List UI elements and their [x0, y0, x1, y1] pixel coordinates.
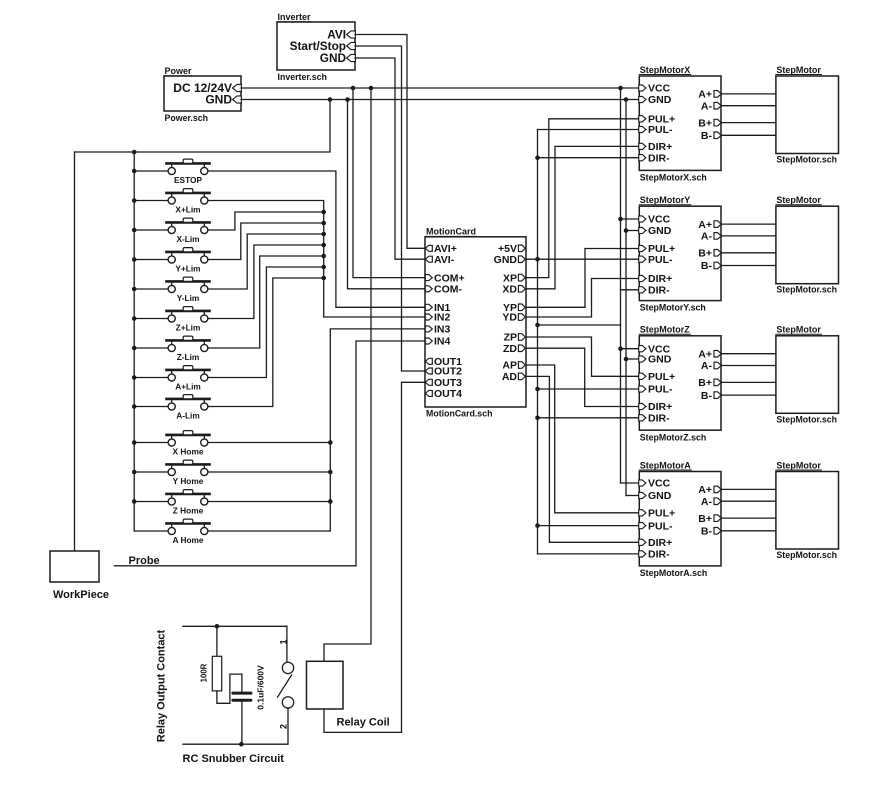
wire Y Home to home bus [208, 471, 330, 473]
pin IN1 of MotionCard [425, 304, 432, 310]
pin XP of MotionCard [518, 274, 525, 281]
wire Y+Lim to limit bus [208, 223, 324, 260]
svg-text:StepMotorY.sch: StepMotorY.sch [640, 303, 706, 313]
junction signal-ground at Z DIR- [535, 416, 540, 421]
wire X Home to home bus [208, 442, 330, 444]
pin COM+ of MotionCard [425, 275, 432, 281]
pin XD of MotionCard [518, 286, 525, 293]
junction signal-ground at A PUL- [535, 523, 540, 528]
junction snubber bottom [239, 742, 244, 747]
svg-text:ZD: ZD [503, 343, 517, 355]
sheet symbol StepMotor of axis A [776, 472, 839, 550]
wire VCC rail to StepMotorZ VCC [621, 348, 640, 350]
junction VCC rail at StepMotorZ [618, 346, 623, 351]
wire A+Lim to limit bus [208, 267, 324, 378]
pin DIR- of StepMotorZ [639, 415, 646, 421]
wire limit bus vertical to MotionCard IN2 [208, 201, 425, 318]
svg-text:XD: XD [502, 284, 517, 296]
svg-text:IN4: IN4 [434, 336, 451, 348]
pin DIR+ of StepMotorX [639, 143, 646, 149]
svg-text:PUL+: PUL+ [648, 371, 675, 383]
pin VCC of StepMotorA [639, 480, 646, 486]
pin A+ of StepMotorX [714, 91, 721, 98]
wire GND rail vertical [625, 100, 627, 496]
wire VCC rail to StepMotorA VCC [621, 482, 640, 484]
wire switch common bus vertical [133, 152, 135, 531]
wire relay contact top [183, 625, 287, 627]
svg-text:VCC: VCC [648, 83, 671, 95]
svg-text:MotionCard: MotionCard [426, 227, 476, 237]
junction +24V at COM+ branch [351, 86, 356, 91]
svg-text:X+Lim: X+Lim [175, 205, 200, 215]
wire relay contact bottom [183, 743, 287, 745]
pin A- of StepMotorZ [714, 362, 721, 369]
pin AVI+ of MotionCard [425, 245, 432, 251]
pin VCC of StepMotorZ [639, 346, 646, 352]
wire B+ StepMotorX to StepMotor [721, 122, 776, 124]
wire ZP to StepMotorZ PUL+ [526, 337, 639, 376]
svg-text:Relay Coil: Relay Coil [337, 717, 390, 729]
junction switch bus at Y Home [132, 470, 137, 475]
wire signal-ground tie to rail [538, 324, 621, 326]
contact terminal 2 [282, 697, 293, 708]
svg-text:X Home: X Home [173, 447, 204, 457]
wire A- StepMotorZ to StepMotor [721, 365, 776, 367]
wire signal-ground to StepMotorA PUL- [538, 525, 640, 527]
pin OUT1 of MotionCard [425, 358, 432, 364]
wire WorkPiece stem [74, 152, 76, 551]
pin IN4 of MotionCard [425, 338, 432, 344]
junction switch bus at A+Lim [132, 375, 137, 380]
switch A Home [134, 519, 209, 545]
wire home bus vertical to MotionCard IN3 [330, 329, 425, 531]
contact terminal 1 [282, 662, 293, 673]
sheet symbol StepMotorZ [639, 336, 721, 430]
svg-text:StepMotor: StepMotor [776, 460, 821, 470]
pin B- of StepMotorY [714, 262, 721, 269]
wire GND rail from Power GND to StepMotorX GND [241, 99, 639, 101]
wire YP to StepMotorY PUL+ [526, 249, 639, 308]
wire A+ StepMotorY to StepMotor [721, 223, 776, 225]
junction switch bus at A-Lim [132, 404, 137, 409]
svg-text:A-: A- [701, 496, 713, 508]
pin A- of StepMotorA [714, 498, 721, 505]
svg-text:StepMotorX: StepMotorX [640, 65, 691, 75]
svg-text:DIR+: DIR+ [648, 141, 672, 153]
pin GND of StepMotorA [639, 492, 646, 498]
svg-text:VCC: VCC [648, 214, 671, 226]
switch Y Home [134, 460, 209, 486]
pin GND of StepMotorY [639, 227, 646, 233]
svg-text:StepMotorA.sch: StepMotorA.sch [640, 568, 707, 578]
pin VCC of StepMotorX [639, 85, 646, 91]
svg-text:B+: B+ [698, 248, 712, 260]
svg-text:A+: A+ [698, 89, 712, 101]
wire contact terminal 2 lead [287, 708, 289, 744]
pin ZD of MotionCard [518, 345, 525, 352]
wire A- StepMotorA to StepMotor [721, 500, 776, 502]
pin DIR- of StepMotorX [639, 155, 646, 161]
wire +24V to Relay Coil [324, 88, 371, 661]
svg-text:PUL-: PUL- [648, 520, 673, 532]
pin AVI- of MotionCard [425, 256, 432, 262]
wire B- StepMotorA to StepMotor [721, 530, 776, 532]
svg-text:A-: A- [701, 360, 713, 372]
svg-text:100R: 100R [200, 663, 209, 682]
junction limit bus at Y+Lim branch [321, 221, 326, 226]
svg-text:A+: A+ [698, 348, 712, 360]
svg-text:DIR-: DIR- [648, 549, 670, 561]
junction switch bus top [132, 150, 137, 155]
wire A- StepMotorX to StepMotor [721, 105, 776, 107]
svg-text:Power: Power [165, 66, 193, 76]
wire signal-ground vertical [537, 130, 539, 554]
pin DC 12/24V of Power [233, 84, 242, 91]
svg-text:A+: A+ [698, 219, 712, 231]
pin ZP of MotionCard [518, 334, 525, 341]
svg-text:Z+Lim: Z+Lim [176, 323, 201, 333]
wire GND to switch common bus [75, 100, 331, 153]
switch A-Lim [134, 395, 209, 421]
sheet symbol StepMotor of axis Z [776, 336, 839, 414]
wire YD to StepMotorY DIR+ [526, 279, 639, 318]
svg-text:StepMotor: StepMotor [776, 195, 821, 205]
wire Z Home to home bus [208, 501, 330, 503]
pin YP of MotionCard [518, 304, 525, 311]
switch Y+Lim [134, 248, 209, 274]
sheet symbol StepMotor of axis X [776, 76, 839, 154]
svg-text:VCC: VCC [648, 478, 671, 490]
svg-text:OUT4: OUT4 [434, 388, 462, 400]
svg-text:B-: B- [701, 260, 713, 272]
wire signal-ground to StepMotorX DIR- [538, 157, 640, 159]
sheet symbol StepMotorY [639, 206, 721, 300]
wire B+ StepMotorY to StepMotor [721, 252, 776, 254]
wire X-Lim to limit bus [208, 212, 324, 230]
svg-text:StepMotor.sch: StepMotor.sch [776, 414, 837, 424]
sheet symbol StepMotorX [639, 76, 721, 170]
svg-text:StepMotorZ.sch: StepMotorZ.sch [640, 432, 706, 442]
pin VCC of StepMotorY [639, 216, 646, 222]
svg-text:Z Home: Z Home [173, 506, 204, 516]
junction switch bus at ESTOP [132, 169, 137, 174]
wire +24V to MotionCard COM+ [353, 88, 425, 278]
wire capacitor bottom lead [241, 702, 243, 745]
sheet symbol MotionCard [425, 237, 526, 407]
wire GND rail to StepMotorA GND [626, 495, 639, 497]
pin A- of StepMotorX [714, 102, 721, 109]
junction switch bus at Y-Lim [132, 287, 137, 292]
wire XP to StepMotorX PUL+ [526, 119, 639, 278]
pin B+ of StepMotorA [714, 515, 721, 522]
svg-text:AD: AD [502, 371, 518, 383]
svg-text:StepMotorY: StepMotorY [640, 195, 691, 205]
resistor 100R [212, 656, 221, 691]
pin OUT3 of MotionCard [425, 379, 432, 385]
svg-text:IN3: IN3 [434, 324, 451, 336]
svg-text:DIR-: DIR- [648, 285, 670, 297]
switch X-Lim [134, 218, 209, 244]
wire A+ StepMotorX to StepMotor [721, 93, 776, 95]
svg-text:DIR+: DIR+ [648, 537, 672, 549]
pin PUL+ of StepMotorA [639, 510, 646, 516]
svg-text:GND: GND [205, 93, 232, 107]
pin PUL- of StepMotorZ [639, 386, 646, 392]
svg-text:Y-Lim: Y-Lim [177, 293, 200, 303]
svg-text:B+: B+ [698, 377, 712, 389]
pin B+ of StepMotorY [714, 250, 721, 257]
wire B+ StepMotorA to StepMotor [721, 517, 776, 519]
junction switch bus at Z-Lim [132, 346, 137, 351]
svg-text:Relay Output Contact: Relay Output Contact [155, 629, 167, 742]
wire ESTOP to MotionCard IN1 [208, 171, 425, 307]
svg-text:OUT2: OUT2 [434, 366, 462, 378]
junction switch bus at Y+Lim [132, 257, 137, 262]
pin OUT4 of MotionCard [425, 390, 432, 396]
pin PUL+ of StepMotorY [639, 245, 646, 251]
wire resistor top lead [216, 626, 218, 656]
wire Z+Lim to limit bus [208, 245, 324, 319]
svg-text:StepMotorX.sch: StepMotorX.sch [640, 173, 707, 183]
svg-text:A+: A+ [698, 484, 712, 496]
junction +24V at relay branch [369, 86, 374, 91]
wire A Home to home bus [208, 530, 330, 532]
wire A+ StepMotorZ to StepMotor [721, 353, 776, 355]
block WorkPiece [50, 551, 99, 582]
block Relay Coil [307, 661, 344, 709]
pin GND of StepMotorZ [639, 356, 646, 362]
switch X+Lim [134, 189, 209, 215]
svg-text:StepMotor: StepMotor [776, 325, 821, 335]
svg-text:ESTOP: ESTOP [174, 175, 202, 185]
switch Y-Lim [134, 277, 209, 303]
svg-text:B-: B- [701, 130, 713, 142]
svg-text:GND: GND [648, 94, 672, 106]
pin GND of Inverter [347, 54, 356, 61]
svg-text:B-: B- [701, 390, 713, 402]
svg-text:B+: B+ [698, 117, 712, 129]
svg-text:RC Snubber Circuit: RC Snubber Circuit [183, 753, 285, 765]
junction signal-ground at rail tie [535, 323, 540, 328]
svg-text:ZP: ZP [504, 332, 517, 344]
junction switch bus at Z Home [132, 499, 137, 504]
svg-text:AVI-: AVI- [434, 254, 455, 266]
wire B- StepMotorX to StepMotor [721, 134, 776, 136]
svg-text:COM+: COM+ [434, 272, 465, 284]
wire VCC rail to StepMotorY VCC [621, 218, 640, 220]
junction GND rail at StepMotorY [624, 228, 629, 233]
svg-text:PUL-: PUL- [648, 384, 673, 396]
switch Z Home [134, 490, 209, 516]
switch Z+Lim [134, 307, 209, 333]
junction snubber top [215, 624, 220, 629]
svg-text:A-: A- [701, 100, 713, 112]
svg-text:StepMotor.sch: StepMotor.sch [776, 285, 837, 295]
wire Inverter Start/Stop to MotionCard OUT2 [355, 46, 425, 371]
wire MotionCard GND to StepMotorY PUL- [526, 258, 639, 260]
svg-text:GND: GND [320, 51, 347, 65]
pin YD of MotionCard [518, 314, 525, 321]
wire A-Lim to limit bus [208, 278, 324, 407]
pin DIR+ of StepMotorA [639, 539, 646, 545]
junction switch bus at X+Lim [132, 198, 137, 203]
pin DIR- of StepMotorY [639, 287, 646, 293]
svg-text:Inverter: Inverter [278, 12, 312, 22]
wire A+ StepMotorA to StepMotor [721, 488, 776, 490]
svg-text:A-Lim: A-Lim [176, 411, 200, 421]
pin B- of StepMotorZ [714, 392, 721, 399]
junction limit bus at A-Lim branch [321, 276, 326, 281]
wire signal-ground to StepMotorZ PUL- [538, 388, 640, 390]
svg-text:MotionCard.sch: MotionCard.sch [426, 409, 492, 419]
wire signal-ground to StepMotorX PUL- [538, 129, 640, 131]
pin PUL+ of StepMotorZ [639, 373, 646, 379]
wire resistor to capacitor [217, 674, 242, 703]
pin COM- of MotionCard [425, 286, 432, 292]
svg-text:PUL-: PUL- [648, 254, 673, 266]
contact lever [278, 675, 292, 697]
sheet symbol Power [164, 76, 241, 111]
svg-text:XP: XP [503, 272, 517, 284]
svg-text:0.1uF/600V: 0.1uF/600V [255, 665, 265, 710]
svg-text:AP: AP [502, 360, 517, 372]
svg-text:DIR-: DIR- [648, 413, 670, 425]
svg-text:A Home: A Home [172, 535, 203, 545]
pin A+ of StepMotorA [714, 486, 721, 493]
svg-text:A+Lim: A+Lim [175, 382, 201, 392]
wire ZD to StepMotorZ DIR+ [526, 348, 639, 406]
pin B+ of StepMotorX [714, 119, 721, 126]
svg-text:X-Lim: X-Lim [176, 234, 199, 244]
wire B- StepMotorZ to StepMotor [721, 394, 776, 396]
junction home bus at Z Home [328, 499, 333, 504]
pin A+ of StepMotorZ [714, 350, 721, 357]
pin AP of MotionCard [518, 362, 525, 369]
wire A- StepMotorY to StepMotor [721, 235, 776, 237]
junction VCC rail at StepMotorY [618, 217, 623, 222]
junction switch bus at X-Lim [132, 228, 137, 233]
svg-text:GND: GND [648, 490, 672, 502]
svg-text:StepMotorA: StepMotorA [640, 460, 691, 470]
junction signal-ground at Z PUL- [535, 387, 540, 392]
junction limit bus at A+Lim branch [321, 265, 326, 270]
junction GND at COM- branch [345, 97, 350, 102]
junction signal-ground at MotionCard GND [535, 257, 540, 262]
svg-text:Power.sch: Power.sch [165, 113, 209, 123]
svg-text:GND: GND [648, 354, 672, 366]
junction limit bus at Y-Lim branch [321, 232, 326, 237]
pin GND of MotionCard [518, 256, 525, 263]
pin IN2 of MotionCard [425, 314, 432, 320]
svg-text:WorkPiece: WorkPiece [53, 589, 109, 601]
svg-text:StepMotor.sch: StepMotor.sch [776, 155, 837, 165]
junction GND at switch-bus branch [328, 97, 333, 102]
wire AP to StepMotorA PUL+ [526, 365, 639, 513]
wire XD to StepMotorX DIR+ [526, 146, 639, 288]
wire rail to StepMotorY DIR- [621, 289, 640, 291]
svg-text:StepMotor: StepMotor [776, 65, 821, 75]
wire Inverter AVI to MotionCard AVI+ [355, 35, 425, 249]
sheet symbol StepMotorA [639, 472, 721, 566]
wire Probe to MotionCard IN4 [115, 341, 426, 566]
svg-text:DIR+: DIR+ [648, 273, 672, 285]
pin B+ of StepMotorZ [714, 379, 721, 386]
wire GND rail to StepMotorZ GND [626, 358, 639, 360]
switch Z-Lim [134, 336, 209, 362]
wire signal-ground to StepMotorA DIR- [538, 553, 640, 555]
switch X Home [134, 431, 209, 457]
svg-text:Y Home: Y Home [173, 476, 204, 486]
svg-text:B+: B+ [698, 513, 712, 525]
wire GND rail to StepMotorY GND [626, 230, 639, 232]
capacitor 0.1uF/600V [231, 692, 252, 695]
svg-text:DIR+: DIR+ [648, 401, 672, 413]
pin GND of StepMotorX [639, 96, 646, 102]
pin B- of StepMotorA [714, 528, 721, 535]
junction GND at driver GND rail branch [624, 97, 629, 102]
svg-text:Inverter.sch: Inverter.sch [278, 72, 327, 82]
wire +24V rail from Power DC12/24V to StepMotorX VCC [241, 87, 639, 89]
pin A+ of StepMotorY [714, 221, 721, 228]
pin +5V of MotionCard [518, 245, 525, 252]
pin IN3 of MotionCard [425, 326, 432, 332]
svg-text:Z-Lim: Z-Lim [177, 352, 200, 362]
switch ESTOP [134, 159, 209, 185]
junction switch bus at Z+Lim [132, 316, 137, 321]
pin B- of StepMotorX [714, 132, 721, 139]
pin PUL- of StepMotorA [639, 523, 646, 529]
junction GND rail at StepMotorZ [624, 357, 629, 362]
svg-text:Y+Lim: Y+Lim [175, 264, 200, 274]
wire Y-Lim to limit bus [208, 234, 324, 289]
pin DIR- of StepMotorA [639, 551, 646, 557]
svg-text:COM-: COM- [434, 284, 462, 296]
svg-text:A-: A- [701, 231, 713, 243]
wire B- StepMotorY to StepMotor [721, 265, 776, 267]
pin A- of StepMotorY [714, 233, 721, 240]
junction limit bus at Z+Lim branch [321, 243, 326, 248]
svg-text:B-: B- [701, 526, 713, 538]
junction home bus at Y Home [328, 470, 333, 475]
junction limit bus at X-Lim branch [321, 210, 326, 215]
wire +24V VCC rail vertical [620, 88, 622, 483]
wire Inverter GND to MotionCard AVI- [355, 58, 425, 259]
junction signal-ground at X DIR- [535, 155, 540, 160]
switch A+Lim [134, 366, 209, 392]
svg-text:GND: GND [494, 254, 518, 266]
pin PUL- of StepMotorX [639, 126, 646, 132]
pin DIR+ of StepMotorZ [639, 403, 646, 409]
sheet symbol StepMotor of axis Y [776, 206, 839, 284]
wire signal-ground to StepMotorZ DIR- [538, 417, 640, 419]
pin OUT2 of MotionCard [425, 368, 432, 374]
wire Relay Coil to MotionCard OUT3 [324, 382, 425, 732]
wire B+ StepMotorZ to StepMotor [721, 381, 776, 383]
junction switch bus at X Home [132, 440, 137, 445]
pin GND of Power [233, 96, 242, 103]
pin AVI of Inverter [347, 31, 356, 38]
svg-text:IN2: IN2 [434, 312, 451, 324]
junction limit bus at Z-Lim branch [321, 254, 326, 259]
svg-text:DIR-: DIR- [648, 152, 670, 164]
wire GND to MotionCard COM- [348, 100, 426, 289]
wire contact terminal 1 lead [286, 626, 288, 662]
pin PUL+ of StepMotorX [639, 116, 646, 122]
svg-text:StepMotorZ: StepMotorZ [640, 325, 690, 335]
svg-text:GND: GND [648, 225, 672, 237]
pin AD of MotionCard [518, 373, 525, 380]
svg-text:YD: YD [502, 312, 517, 324]
